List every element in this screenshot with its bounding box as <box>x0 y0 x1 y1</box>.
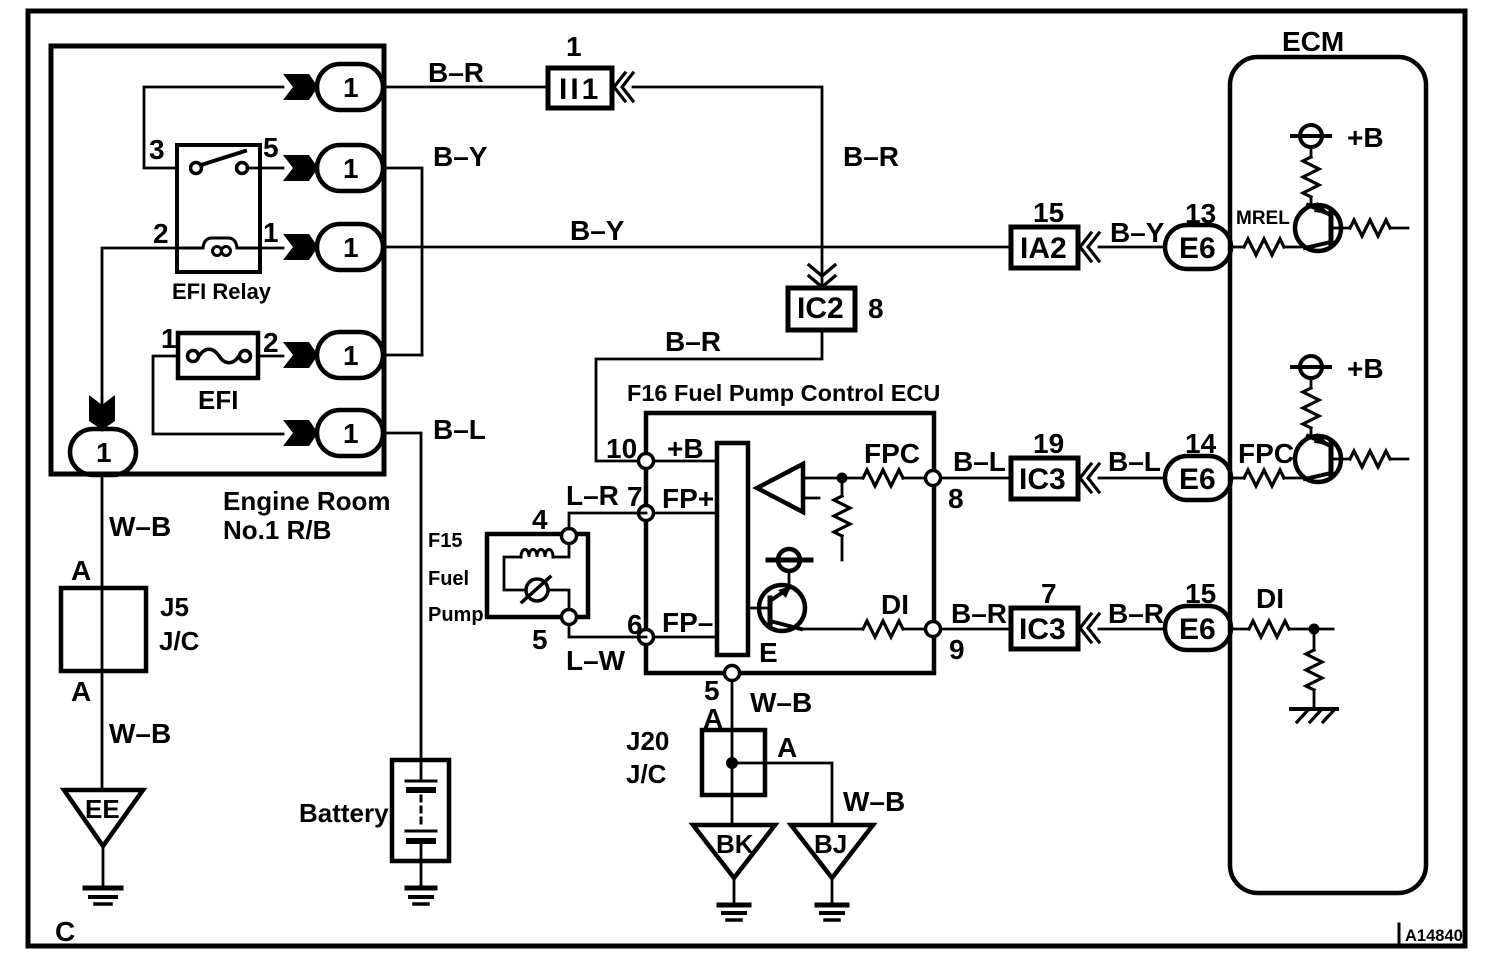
svg-text:L–R: L–R <box>566 480 619 511</box>
node 5 pump <box>562 610 577 625</box>
wire IC2 down left down to node 10 <box>596 330 822 461</box>
resistor vertical under dot <box>841 478 844 496</box>
wire fuse pin2 to row4 <box>258 355 283 358</box>
junction dot J20 <box>726 757 738 769</box>
fuse element <box>188 351 199 362</box>
svg-text:E6: E6 <box>1179 613 1216 646</box>
svg-text:14: 14 <box>1185 428 1217 459</box>
label A14840 <box>1398 924 1401 943</box>
EFI Relay box <box>177 145 260 272</box>
resistor vertical FPC <box>1310 378 1313 388</box>
wire supply to transistor <box>788 571 791 588</box>
svg-text:19: 19 <box>1033 428 1064 459</box>
svg-text:1: 1 <box>566 31 582 62</box>
ground triangle BJ <box>791 825 873 878</box>
svg-text:1: 1 <box>343 340 359 371</box>
E6 connector pin 14 <box>1165 456 1231 500</box>
connector IC2 <box>788 288 855 330</box>
wire relay pin5 to row2 <box>247 167 283 170</box>
svg-text:FP+: FP+ <box>662 483 714 514</box>
svg-text:Pump: Pump <box>428 604 484 626</box>
junction block J20 <box>702 730 765 795</box>
wire relay pin2 left and down <box>102 248 177 398</box>
svg-text:A: A <box>71 555 91 586</box>
svg-text:B–Y: B–Y <box>570 215 625 246</box>
F16 inner bar <box>717 443 748 655</box>
transistor Q in F16 <box>759 585 805 631</box>
battery cell plates <box>420 760 423 781</box>
svg-text:E6: E6 <box>1179 463 1216 496</box>
supply circle symbol in F16 <box>778 549 800 571</box>
wire IA2 to E6 pin13 <box>1099 246 1165 249</box>
relay switch contact left <box>191 163 202 174</box>
pump motor circle <box>526 579 548 601</box>
svg-text:1: 1 <box>343 72 359 103</box>
resistor MREL base left <box>1233 246 1244 249</box>
svg-text:BK: BK <box>716 829 754 859</box>
svg-text:1: 1 <box>96 437 112 468</box>
amp input stub <box>803 497 819 500</box>
svg-text:FPC: FPC <box>1238 438 1294 469</box>
svg-text:W–B: W–B <box>109 718 171 749</box>
chassis ground DI <box>1291 707 1337 711</box>
E6 connector pin 13 <box>1165 225 1231 269</box>
svg-text:1: 1 <box>263 217 279 248</box>
wire DI row to node 9 <box>799 628 863 631</box>
op-amp triangle <box>757 464 803 512</box>
wire II1 to vertical B-R <box>633 87 822 287</box>
svg-text:IA2: IA2 <box>1020 232 1067 265</box>
svg-text:1: 1 <box>161 323 177 354</box>
junction dot DI <box>1309 624 1320 635</box>
IC3 connector pin 7 <box>1011 608 1078 649</box>
svg-text:1: 1 <box>343 153 359 184</box>
wire +B inside F16 <box>646 460 717 463</box>
wire relay pin3 to row1 <box>144 87 283 168</box>
wire row4 from junction <box>383 354 422 357</box>
connector 1 (row EFI fuse out) <box>317 332 383 378</box>
svg-text:B–L: B–L <box>1108 446 1161 477</box>
transistor Q FPC <box>1295 436 1341 482</box>
wire EE to ground <box>102 846 105 886</box>
ground triangle EE <box>64 790 143 846</box>
svg-text:15: 15 <box>1185 578 1216 609</box>
resistor vertical DI <box>1313 634 1316 650</box>
wire IC3 7 to E6 15 <box>1099 628 1165 631</box>
wire B-Y long row3 to IA2 <box>383 246 1011 249</box>
svg-text:DI: DI <box>1256 583 1284 614</box>
arrow into connector row5 <box>283 420 318 446</box>
node 5 bottom of F16 <box>725 666 740 681</box>
svg-text:IC3: IC3 <box>1019 613 1066 646</box>
ground symbol BK <box>719 903 749 908</box>
connector 1 (row B-Y upper) <box>317 145 383 191</box>
svg-text:C: C <box>55 916 75 947</box>
svg-text:B–Y: B–Y <box>1110 217 1165 248</box>
svg-text:8: 8 <box>868 293 884 324</box>
svg-text:F15: F15 <box>428 530 462 552</box>
chevrons down into IC2 <box>809 265 835 287</box>
wire FP- inside F16 <box>646 636 717 639</box>
svg-text:5: 5 <box>532 624 548 655</box>
wire through J5 <box>101 588 104 671</box>
node 4 pump <box>562 529 577 544</box>
arrow into connector row4 <box>283 342 318 368</box>
wire node9 to IC3 7 <box>941 628 1011 631</box>
svg-text:II1: II1 <box>559 73 601 106</box>
resistor FPC base left <box>1233 477 1244 480</box>
E6 connector pin 15 <box>1165 606 1231 650</box>
wire node4 up to node 7 <box>569 513 646 529</box>
svg-text:+B: +B <box>667 433 704 464</box>
svg-text:DI: DI <box>881 589 909 620</box>
ground symbol EE <box>85 886 121 891</box>
svg-text:Fuel: Fuel <box>428 568 469 590</box>
EFI fuse box <box>178 333 258 378</box>
F15 fuel pump box <box>487 534 588 617</box>
ground triangle BK <box>693 825 775 878</box>
resistor vertical MREL <box>1310 147 1313 157</box>
node 10 <box>639 454 654 469</box>
ECM box <box>1230 57 1426 893</box>
svg-text:J/C: J/C <box>626 759 667 789</box>
+B supply symbol FPC <box>1300 356 1322 378</box>
arrow down into bottom-left connector <box>89 395 115 430</box>
resistor FPC horizontal <box>863 470 903 486</box>
wire bottom connector to J5 <box>101 474 104 588</box>
svg-text:B–R: B–R <box>843 141 899 172</box>
wire relay pin1 to row3 <box>260 247 283 250</box>
wire B-R row1 to II1 <box>383 86 548 89</box>
relay switch arm <box>201 151 245 165</box>
svg-text:EE: EE <box>85 794 120 824</box>
svg-text:J/C: J/C <box>159 626 200 656</box>
node 7 <box>639 506 654 521</box>
wire J5 to EE <box>101 671 104 790</box>
F16 box <box>646 413 934 673</box>
svg-text:5: 5 <box>263 132 279 163</box>
wire IC3 to E6 14 <box>1099 477 1165 480</box>
svg-text:2: 2 <box>263 327 279 358</box>
arrow into connector row2 <box>283 155 318 181</box>
arrow into connector row1 <box>283 74 318 100</box>
svg-text:3: 3 <box>149 134 165 165</box>
chevrons right of IC3 7 <box>1080 614 1099 642</box>
wire J20 to BK <box>731 795 734 825</box>
wire J20 dot to BJ <box>732 763 832 825</box>
svg-text:10: 10 <box>606 433 637 464</box>
svg-text:B–R: B–R <box>428 57 484 88</box>
wire node5 F16 down to J20 <box>731 681 734 730</box>
svg-text:Battery: Battery <box>299 798 389 828</box>
relay switch contact right <box>237 163 248 174</box>
svg-text:B–L: B–L <box>953 446 1006 477</box>
svg-text:L–W: L–W <box>566 645 626 676</box>
svg-text:15: 15 <box>1033 197 1064 228</box>
connector 1 (row B-L) <box>317 410 383 456</box>
battery box <box>392 760 449 861</box>
ground symbol BJ <box>817 903 847 908</box>
svg-text:FPC: FPC <box>864 438 920 469</box>
svg-text:+B: +B <box>1347 122 1384 153</box>
wire amp output to FPC node 8 <box>803 477 863 480</box>
connector 1 (bottom left) <box>70 429 136 475</box>
connector 1 (row B-R) <box>317 64 383 110</box>
transistor base wire from bar <box>748 607 770 610</box>
svg-text:A14840: A14840 <box>1405 927 1463 945</box>
svg-text:No.1 R/B: No.1 R/B <box>223 515 331 545</box>
svg-text:W–B: W–B <box>109 511 171 542</box>
connector 1 (row B-Y long) <box>317 224 383 270</box>
svg-text:B–R: B–R <box>665 326 721 357</box>
svg-text:+B: +B <box>1347 353 1384 384</box>
svg-text:1: 1 <box>343 232 359 263</box>
relay coil <box>177 238 260 248</box>
connector IA2 <box>1011 227 1078 268</box>
svg-text:ECM: ECM <box>1282 26 1344 57</box>
svg-text:A: A <box>71 676 91 707</box>
Engine Room No.1 R/B box <box>51 46 384 474</box>
svg-text:EFI: EFI <box>198 385 238 415</box>
svg-text:J5: J5 <box>160 592 189 622</box>
wire B-Y row2 to vertical junction <box>383 168 422 355</box>
svg-text:B–Y: B–Y <box>433 141 488 172</box>
svg-text:B–L: B–L <box>433 414 486 445</box>
svg-text:13: 13 <box>1185 198 1216 229</box>
svg-text:J20: J20 <box>626 726 669 756</box>
junction dot FPC <box>837 473 848 484</box>
svg-text:BJ: BJ <box>814 829 847 859</box>
node 9 <box>926 622 941 637</box>
resistor DI horizontal <box>863 621 903 637</box>
wire fuse pin1 left down to row5 <box>153 356 283 434</box>
svg-text:B–R: B–R <box>951 598 1007 629</box>
svg-text:IC2: IC2 <box>797 292 844 325</box>
svg-text:A: A <box>777 732 797 763</box>
arrow into connector row3 <box>283 234 318 260</box>
svg-text:5: 5 <box>704 675 720 706</box>
wire BJ to ground <box>831 878 834 904</box>
svg-text:F16 Fuel Pump Control ECU: F16 Fuel Pump Control ECU <box>627 380 940 406</box>
svg-text:4: 4 <box>532 504 548 535</box>
ground symbol battery <box>407 886 435 891</box>
svg-text:EFI Relay: EFI Relay <box>172 279 272 304</box>
svg-text:B–R: B–R <box>1108 598 1164 629</box>
chevrons right of II1 <box>614 73 633 101</box>
junction block J5 <box>61 588 146 671</box>
svg-text:2: 2 <box>153 218 169 249</box>
svg-text:E6: E6 <box>1179 232 1216 265</box>
node 6 <box>639 630 654 645</box>
IC3 connector pin 19 <box>1011 458 1078 499</box>
transistor Q MREL <box>1295 205 1341 251</box>
svg-text:Engine Room: Engine Room <box>223 486 391 516</box>
wire through J20 <box>731 730 734 795</box>
wire FP+ inside F16 <box>646 512 717 515</box>
pump coil <box>553 539 569 557</box>
resistor FPC right <box>1331 458 1350 461</box>
svg-text:E: E <box>759 637 778 668</box>
svg-text:FP–: FP– <box>662 607 713 638</box>
resistor DI <box>1233 628 1249 631</box>
+B supply symbol MREL <box>1300 125 1322 147</box>
chevrons right of IA2 <box>1080 233 1099 261</box>
wire B-L row5 to battery <box>383 433 421 760</box>
svg-text:1: 1 <box>343 418 359 449</box>
node 8 <box>926 471 941 486</box>
svg-text:IC3: IC3 <box>1019 463 1066 496</box>
wire node5 down to node 6 <box>569 625 646 637</box>
svg-text:8: 8 <box>948 483 964 514</box>
wire left vertical W-B down from relay pin2 corner to bottom connector <box>101 398 104 430</box>
svg-text:W–B: W–B <box>750 687 812 718</box>
resistor MREL right <box>1331 227 1350 230</box>
wire BK to ground <box>733 878 736 904</box>
svg-text:9: 9 <box>949 634 965 665</box>
svg-text:7: 7 <box>1041 578 1057 609</box>
wire node8 to IC3 <box>941 477 1011 480</box>
connector II1 <box>548 68 612 108</box>
chevrons right of IC3 19 <box>1080 464 1099 492</box>
svg-text:MREL: MREL <box>1236 208 1290 229</box>
svg-text:W–B: W–B <box>843 786 905 817</box>
